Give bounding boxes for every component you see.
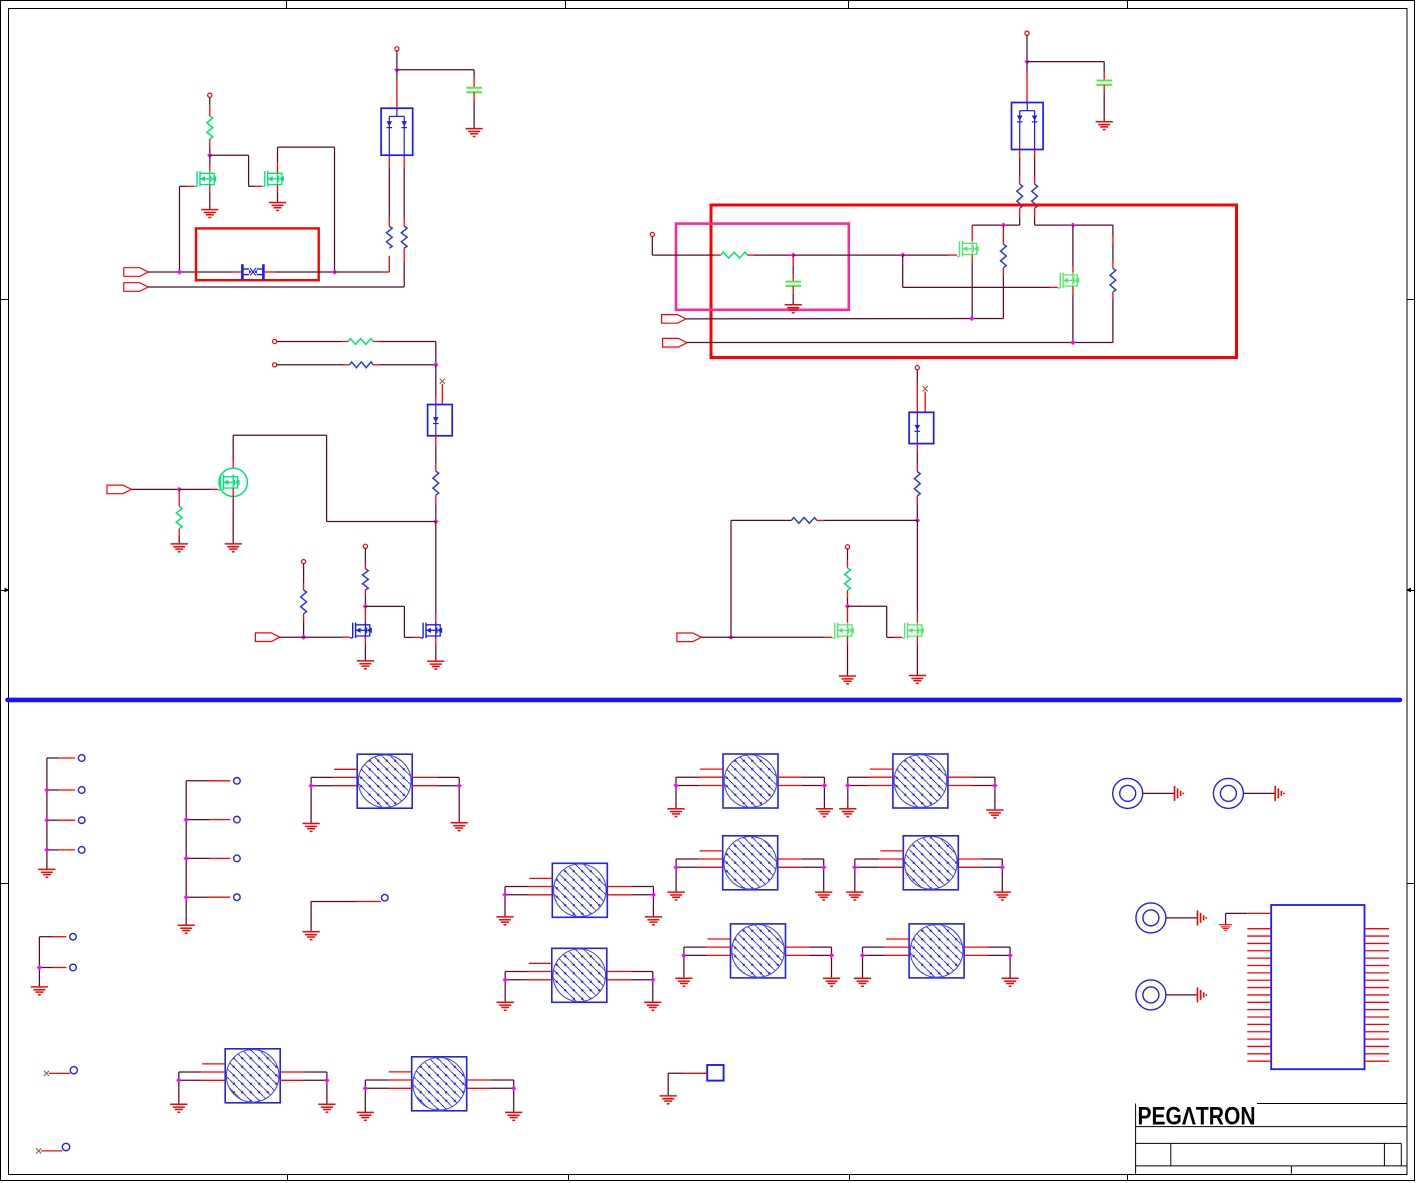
wire [209,139,211,147]
ferrite bead filter FB1 [303,754,468,831]
wire [435,495,437,505]
wire [793,254,903,256]
wire [916,520,918,613]
wire [1019,208,1021,217]
port SIG2 [124,283,148,292]
capacitor C2 [1096,81,1112,85]
wire [817,519,824,521]
wire [364,606,366,624]
wire [335,271,383,273]
ground [909,676,926,684]
wire [686,318,1003,320]
pin P5 [302,560,306,564]
ground [785,305,802,313]
test point TP1 [44,1067,78,1076]
wire [916,496,918,504]
wire [1034,150,1036,159]
transistor Q6 [957,241,979,257]
node junction [728,635,733,640]
resistor R7 [176,507,182,529]
power pin P2 [395,47,399,51]
wire [1112,292,1114,299]
node junction [1024,59,1029,64]
ground [357,661,374,669]
wire [1026,35,1028,61]
wire [792,286,794,294]
wire [210,154,249,156]
node junction [177,269,182,274]
connector header J1 [38,755,85,878]
section divider bus [8,698,1401,703]
resistor R3 [401,226,407,248]
wire [403,218,405,227]
wire [847,636,849,645]
node junction [332,269,337,274]
wire [651,237,653,256]
wire [232,435,234,460]
wire [277,185,279,193]
wire [373,364,379,366]
wire [364,548,366,562]
resistor R10 [1017,184,1023,208]
wire [971,255,973,263]
power pin P1 [208,93,212,97]
wire [1072,286,1074,295]
wire [847,549,849,560]
wire [847,590,849,598]
resistor R15 [914,472,920,496]
transistor Q5 [421,622,443,638]
jack JK2 [1213,778,1284,808]
ferrite bead filter FB3 [839,754,1003,818]
wire [364,636,366,645]
connector header J3 [31,933,76,994]
resistor R14 [721,252,747,258]
node junction [207,153,212,158]
port EN3 [677,633,701,642]
svg-text:PEGΛTRON: PEGΛTRON [1138,1102,1256,1130]
wire [473,92,475,101]
resistor R11 [1032,184,1038,208]
resistor R9 [363,569,369,590]
wire [179,186,181,272]
ferrite bead filter FB5 [668,836,833,900]
resistor R16 [791,518,816,524]
ferrite bead filter FB7 [497,948,662,1010]
test point TP2 [36,1143,70,1153]
wire [902,255,904,287]
node junction [301,635,306,640]
ferrite bead filter FB9 [854,924,1019,986]
port SIG1 [124,268,148,277]
node junction [394,67,399,72]
wire [277,163,279,173]
wire [441,384,443,405]
connector U1 [1219,905,1389,1069]
wire [209,185,211,193]
wire [1019,150,1021,159]
wire [396,70,398,80]
wire [701,636,731,638]
ground [839,676,856,684]
wire [178,529,180,536]
wire [792,255,794,266]
dual diode package D3 [1012,103,1044,150]
dual diode package D1 [381,108,413,155]
connector pin J4 [303,894,389,939]
node junction [433,519,438,524]
wire [1034,208,1036,217]
ground [1096,122,1113,130]
ferrite bead filter FB11 [357,1057,523,1121]
resistor R2 [386,226,392,248]
transistor Q9 [902,622,924,638]
wire [747,254,754,256]
port SIG3 [662,315,686,324]
jack JK1 [1113,778,1184,808]
wire [280,636,342,638]
ground [466,129,483,137]
connector header J2 [178,778,241,934]
wire [731,519,791,521]
wire [971,225,973,243]
wire [326,435,328,521]
diode package D4 [909,412,934,443]
wire [373,341,379,343]
resistor R4 [348,339,373,345]
node junction [969,316,974,321]
transistor Q4 [350,622,372,638]
ground [269,203,286,211]
wire [179,488,210,490]
ferrite bead filter FB4 [496,863,662,925]
resistor R1 [207,116,213,139]
wire [847,606,849,624]
resistor R12 [1001,244,1007,267]
port SIG4 [663,338,687,347]
wire [848,605,887,607]
title block [1136,1104,1408,1174]
wire [365,605,404,607]
ground [225,544,242,552]
wire [903,254,948,256]
wire [1002,268,1004,276]
red highlight box 2 [711,205,1237,358]
transistor Q2 [262,171,284,187]
wire [397,69,474,71]
port EN1 [107,485,131,494]
component SW1 [660,1065,724,1104]
power pin P9 [915,366,919,370]
wire [1002,225,1004,244]
ferrite bead filter FB2 [667,754,833,817]
ferrite bead filter FB8 [675,924,840,986]
ground [427,661,444,669]
wire [263,271,275,273]
wire [277,341,342,343]
node junction [1001,223,1006,228]
wire [303,614,305,621]
wire [435,436,437,446]
resistor R17 [845,568,851,590]
jack JK4 [1136,980,1206,1010]
wire [1112,225,1114,236]
node junction [1070,340,1075,345]
ground [201,210,218,218]
node junction [1070,223,1075,228]
pin P4 [273,363,277,367]
resistor R13 [1110,268,1116,292]
wire [730,520,732,637]
node junction [177,487,182,492]
pink highlight box [676,224,849,310]
resistor R5 [350,362,374,368]
node junction [791,253,796,258]
jack JK3 [1136,903,1206,933]
wire [916,444,918,452]
capacitor C1 [466,88,482,92]
wire [303,564,305,583]
wire [916,636,918,645]
wire [277,364,343,366]
no connect X2 [923,386,928,391]
net tie W1 [242,264,263,279]
wire [1072,225,1074,266]
red highlight box 1 [196,228,319,280]
diode package D2 [428,405,453,436]
node junction [900,253,905,258]
wire [364,590,366,597]
wire [687,342,1113,344]
wire [435,522,437,615]
transistor Q8 [832,622,854,638]
wire [209,97,211,104]
no connect X1 [440,379,445,384]
wire [435,365,437,396]
wire [388,218,390,227]
capacitor C3 [785,282,801,286]
wire [1103,85,1105,93]
node junction [845,604,850,609]
wire [327,521,436,523]
wire [1026,62,1028,72]
wire [916,370,918,383]
transistor Q3 [219,468,247,496]
wire [148,286,404,288]
wire [1027,61,1104,63]
pin P6 [363,544,367,548]
wire [232,488,234,499]
resistor R8 [301,590,307,614]
ground [171,544,188,552]
wire [178,489,180,506]
node junction [363,604,368,609]
wire [924,391,926,412]
power pin P10 [845,545,849,549]
wire [209,155,211,164]
ferrite bead filter FB10 [170,1049,335,1112]
wire [435,636,437,645]
pin P3 [273,339,277,343]
wire [148,271,231,273]
wire [131,488,179,490]
node junction [433,362,438,367]
resistor R6 [433,471,439,495]
transistor Q1 [195,171,217,187]
power pin P8 [650,232,654,236]
wire [396,51,398,70]
port EN2 [255,633,279,642]
node junction [915,518,920,523]
ferrite bead filter FB6 [846,836,1011,900]
power pin P7 [1025,31,1029,35]
transistor Q7 [1058,272,1080,288]
